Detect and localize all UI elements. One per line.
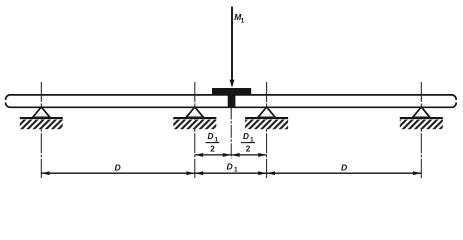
moment arrow M1 [230, 7, 235, 88]
label M1 [234, 12, 244, 24]
label D1 centre [227, 161, 239, 173]
roller triangle support 1 [33, 107, 50, 117]
notch left beam end [4, 100, 7, 103]
svg-text:2: 2 [246, 144, 251, 153]
svg-text:D: D [208, 132, 214, 141]
ground line support 3 [245, 117, 288, 119]
centre/extension line support 1 [40, 82, 42, 178]
label D1/2 left [206, 132, 220, 153]
loading stem through beam [228, 94, 236, 106]
support 4 (right) [400, 82, 443, 178]
svg-text:D: D [341, 163, 347, 173]
notch right beam end [455, 100, 458, 103]
roller triangle support 3 [258, 107, 275, 117]
svg-text:D: D [115, 163, 121, 173]
svg-text:1: 1 [234, 167, 238, 174]
loading plate [212, 88, 251, 95]
svg-text:D: D [243, 132, 249, 141]
support 1 (left) [20, 82, 63, 178]
support 3 (mid-right) [245, 82, 288, 178]
ground line support 1 [20, 117, 63, 119]
ground hatch support 1 [20, 120, 63, 130]
centre/extension line support 2 [194, 82, 196, 178]
ground hatch support 3 [245, 120, 288, 130]
roller triangle support 4 [413, 107, 430, 117]
svg-text:D: D [227, 161, 233, 171]
roller triangle support 2 [186, 107, 203, 117]
svg-text:1: 1 [241, 17, 245, 24]
ground line support 2 [173, 117, 216, 119]
label D1/2 right [241, 132, 255, 153]
centre line of specimen (dash-dot) [230, 107, 232, 159]
centre/extension line support 4 [420, 82, 422, 178]
beam (specimen) outline [4, 95, 458, 107]
centre/extension line support 3 [266, 82, 268, 178]
dimension line D1/2 row [195, 153, 267, 157]
svg-text:2: 2 [210, 144, 215, 153]
ground hatch support 4 [400, 120, 443, 130]
ground hatch support 2 [173, 120, 216, 130]
dimension line bottom row (D, D1, D) [41, 171, 421, 175]
support 2 (mid-left) [173, 82, 216, 178]
ground line support 4 [400, 117, 443, 119]
